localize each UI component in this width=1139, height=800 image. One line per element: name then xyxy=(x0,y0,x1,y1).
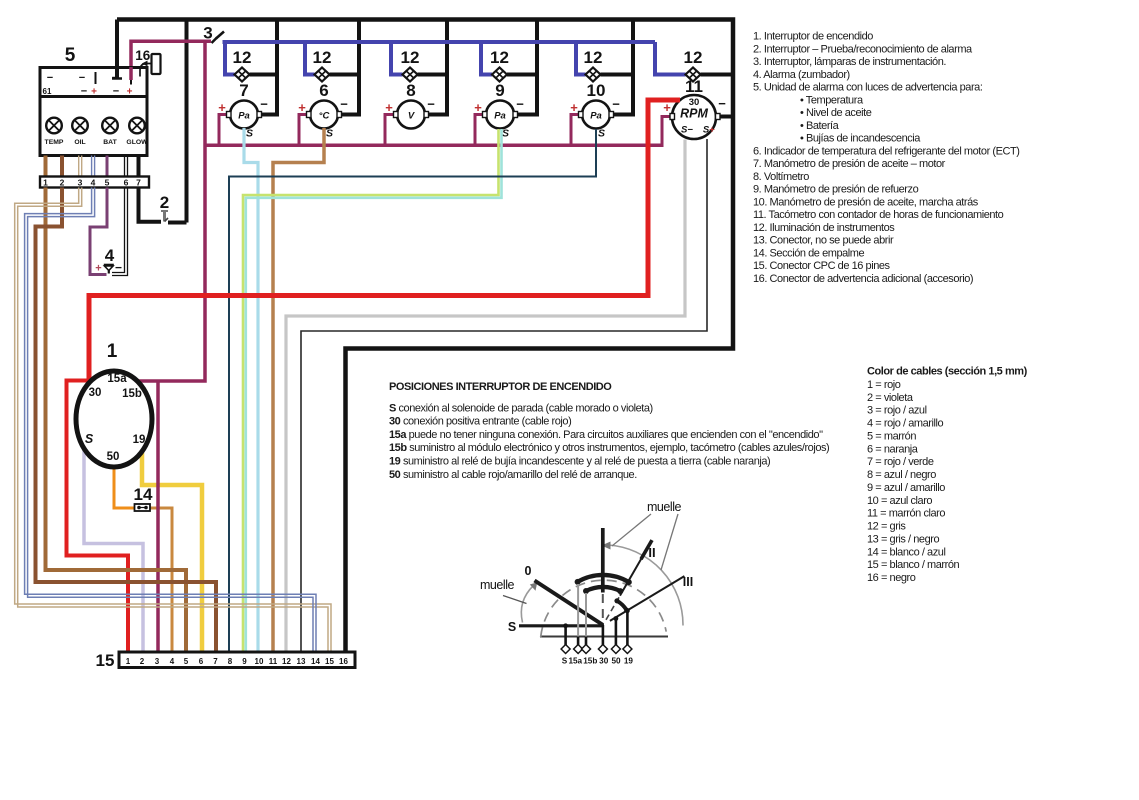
svg-text:+: + xyxy=(709,125,715,136)
wire: black from lamp 12 to column, gauge 8 xyxy=(418,73,448,77)
svg-text:• Nivel de aceite: • Nivel de aceite xyxy=(800,107,872,119)
ignition diagram: terminal 30 lead xyxy=(602,625,605,645)
svg-text:30: 30 xyxy=(89,387,102,399)
svg-text:+: + xyxy=(298,100,306,115)
wire: violet positive stub of tachometer 11 xyxy=(662,117,672,148)
wire: lavender from ignition S terminal to connector 15 pin 2 xyxy=(84,449,143,652)
gauge 10 xyxy=(570,81,620,140)
svg-text:8: 8 xyxy=(406,81,415,100)
svg-text:−: − xyxy=(340,97,348,112)
svg-text:5: 5 xyxy=(184,657,189,666)
svg-text:2: 2 xyxy=(140,657,145,666)
svg-text:19: 19 xyxy=(133,434,146,446)
lamp 12 above gauge 8 xyxy=(401,48,420,82)
wire: white/brown pin3 of unit 5 to connector 15 pin 15 xyxy=(15,188,331,653)
svg-text:12: 12 xyxy=(401,48,420,67)
wire: black from lamp 12 to column, gauge 9 xyxy=(507,73,537,77)
svg-text:15. Conector CPC de 16 pines: 15. Conector CPC de 16 pines xyxy=(753,260,891,272)
svg-text:12 = gris: 12 = gris xyxy=(867,521,906,533)
svg-text:°C: °C xyxy=(319,111,330,122)
alarm buzzer 4 xyxy=(95,246,122,275)
svg-text:7: 7 xyxy=(213,657,218,666)
wire: black from lamp 12 to column, gauge 6 xyxy=(330,73,360,77)
wire: black from lamp 12 of tachometer to right column xyxy=(701,73,734,77)
wire: orange from ignition terminal 50 to splice 14 xyxy=(114,466,135,508)
wire: violet unit5 pin 5 lead xyxy=(106,156,109,177)
wire: black negative lead of gauge 6 xyxy=(338,113,359,117)
wire: dark blue sender of gauge 10 to connector 15 pin 8 xyxy=(229,129,596,652)
svg-text:Pa: Pa xyxy=(494,111,506,122)
wire: white/brown unit5 pin 3 lead xyxy=(78,156,80,177)
svg-text:14 = blanco / azul: 14 = blanco / azul xyxy=(867,546,945,558)
svg-text:4. Alarma (zumbador): 4. Alarma (zumbador) xyxy=(753,69,850,81)
wire: blue illumination feed to lamp 12 of gauge 6 xyxy=(305,42,315,75)
svg-text:16 = negro: 16 = negro xyxy=(867,572,916,584)
wire: violet positive stub to gauge 10 xyxy=(571,115,581,148)
connector 16 (additional warning connector, accessory) xyxy=(135,48,160,77)
svg-text:7: 7 xyxy=(239,81,248,100)
svg-text:S conexión al solenoide de par: S conexión al solenoide de parada (cable… xyxy=(389,402,653,414)
svg-text:14. Sección de empalme: 14. Sección de empalme xyxy=(753,247,865,259)
svg-text:10. Manómetro de presión de ac: 10. Manómetro de presión de aceite, marc… xyxy=(753,196,979,208)
svg-text:12: 12 xyxy=(684,48,703,67)
wire: brown pin1 of unit 5 to connector 15 pin 5 xyxy=(46,188,187,653)
svg-text:+: + xyxy=(95,263,101,275)
svg-text:• Temperatura: • Temperatura xyxy=(800,94,864,106)
svg-text:muelle: muelle xyxy=(647,500,682,514)
wire: white/blue pin4 of unit 5 to connector 15 pin 14 xyxy=(25,188,316,653)
svg-text:15a: 15a xyxy=(107,373,127,385)
wire: orange/brown from splice 14 to connector 15 pin 4 xyxy=(150,508,172,652)
wire: light brown sender of gauge 6 to connector 15 pin 11 xyxy=(273,128,324,652)
connector 15 (16-pin CPC connector) xyxy=(96,651,355,670)
lamp 12 above gauge 7 xyxy=(233,48,252,82)
wire: light blue sender of gauge 7 to connector 15 pin 10 xyxy=(244,128,258,652)
svg-text:19: 19 xyxy=(624,657,634,666)
svg-text:2: 2 xyxy=(60,178,65,188)
wire: black negative lead of gauge 7 xyxy=(258,113,277,117)
svg-text:1. Interruptor de encendido: 1. Interruptor de encendido xyxy=(753,31,873,43)
svg-text:−: − xyxy=(612,97,620,112)
svg-text:1: 1 xyxy=(43,178,48,188)
ignition diagram: position 0 lever xyxy=(535,581,604,626)
svg-text:S: S xyxy=(85,432,94,446)
lamp 12 above gauge 10 xyxy=(584,48,603,82)
svg-text:1 = rojo: 1 = rojo xyxy=(867,379,901,391)
svg-text:S−: S− xyxy=(681,125,693,136)
wire: violet branch from 15b junction down to connector 15 pin 3 xyxy=(156,381,160,652)
lamp 12 above gauge 6 xyxy=(313,48,332,82)
wire: black negative lead of tachometer 11 xyxy=(716,115,733,119)
svg-text:+: + xyxy=(218,100,226,115)
svg-text:III: III xyxy=(683,575,693,589)
svg-text:II: II xyxy=(648,545,655,560)
svg-text:14: 14 xyxy=(134,485,153,504)
wire: black from pin 7 to test switch 2 xyxy=(139,188,162,222)
wire: blue illumination feed to lamp 12 of gauge 9 xyxy=(481,42,492,75)
wire: black from switch 2 up to main bus xyxy=(168,221,187,225)
wire: black unit5 pin 7 lead xyxy=(137,156,141,177)
gauge 6 xyxy=(298,81,348,140)
svg-text:5. Unidad de alarma con luces: 5. Unidad de alarma con luces de adverte… xyxy=(753,82,983,94)
svg-text:−: − xyxy=(427,97,435,112)
wire: violet positive bus linking gauges xyxy=(205,144,662,148)
ignition diagram: contact arc 50-19 small heavy arc xyxy=(617,601,627,610)
cable color legend xyxy=(867,366,1028,585)
switch 3 (instrument lamp switch) xyxy=(203,24,224,44)
wire: violet positive stub to gauge 8 xyxy=(385,115,396,148)
svg-text:• Bujías de incandescencia: • Bujías de incandescencia xyxy=(800,133,921,145)
svg-text:15: 15 xyxy=(325,657,334,666)
wire: violet positive stub to gauge 7 xyxy=(219,115,229,148)
ignition diagram: terminal 15a lead xyxy=(577,637,580,646)
svg-text:30: 30 xyxy=(599,657,609,666)
splice 14 (splice section) xyxy=(134,485,153,511)
wire: black negative lead of gauge 9 xyxy=(514,113,537,117)
wire: green line of gauge 9 sender pair to connector 15 pin 9 xyxy=(243,129,499,652)
wire: blue illumination feed to lamp 12 of gauge 8 xyxy=(391,42,403,75)
svg-text:S: S xyxy=(562,657,568,666)
gauge 7 xyxy=(218,81,268,140)
svg-text:2. Interruptor – Prueba/recono: 2. Interruptor – Prueba/reconocimiento d… xyxy=(753,43,973,55)
svg-text:V: V xyxy=(408,111,415,122)
svg-text:12: 12 xyxy=(584,48,603,67)
svg-text:−: − xyxy=(516,97,524,112)
ignition diagram: position I line solid and dashed to centre xyxy=(601,528,605,593)
wire: black drop from bus, column of gauge 10 xyxy=(631,20,635,117)
ignition diagram: terminal 19 lead and contact dot xyxy=(626,611,629,645)
wire: violet from pin 5 to buzzer plus xyxy=(90,188,107,275)
wire: white unit5 pin 6 lead xyxy=(124,156,126,177)
svg-text:7. Manómetro de presión de ace: 7. Manómetro de presión de aceite – moto… xyxy=(753,158,946,170)
wire: red from ignition switch 30 down to connector 15 pin 1 xyxy=(67,381,129,653)
wire: black negative lead of gauge 10 xyxy=(610,113,633,117)
alarm unit 5 (warning light unit) xyxy=(40,45,148,156)
svg-text:9. Manómetro de presión de ref: 9. Manómetro de presión de refuerzo xyxy=(753,184,919,196)
svg-text:12. Iluminación de instrumento: 12. Iluminación de instrumentos xyxy=(753,222,895,234)
ignition diagram: contact arc 15b outer heavy arc xyxy=(578,575,629,582)
svg-text:2: 2 xyxy=(160,193,169,212)
wire: blue illumination bus after switch 3 xyxy=(223,40,656,44)
ignition diagram: dashed intermediate arc xyxy=(541,580,667,637)
svg-text:muelle: muelle xyxy=(480,578,515,592)
svg-text:−: − xyxy=(79,72,85,84)
svg-text:50 suministro al cable rojo/am: 50 suministro al cable rojo/amarillo del… xyxy=(389,469,637,481)
svg-text:6: 6 xyxy=(199,657,204,666)
svg-text:5 = marrón: 5 = marrón xyxy=(867,431,916,443)
wire: red battery positive to tachometer plus and ignition switch 30 xyxy=(89,100,680,382)
wire: violet supply from unit 5 to switch 3 xyxy=(131,41,211,80)
ignition diagram: position II line with tick xyxy=(606,596,620,620)
svg-text:11 = marrón claro: 11 = marrón claro xyxy=(867,508,945,520)
gauge 9 xyxy=(474,81,524,140)
svg-text:15 = blanco / marrón: 15 = blanco / marrón xyxy=(867,559,960,571)
wire: grey S-minus of tachometer 11 to connector 15 pin 12 xyxy=(286,140,685,653)
svg-text:4: 4 xyxy=(91,178,96,188)
wire: black drop from bus to test switch 2 xyxy=(185,20,189,223)
wire: violet positive stub to gauge 9 xyxy=(475,115,485,148)
svg-text:S: S xyxy=(598,128,605,140)
svg-text:Pa: Pa xyxy=(590,111,602,122)
gauge 8 xyxy=(385,81,435,129)
svg-text:10 = azul claro: 10 = azul claro xyxy=(867,495,932,507)
wire: blue illumination feed to lamp 12 of gauge 10 xyxy=(576,42,586,75)
svg-text:13: 13 xyxy=(297,657,306,666)
wire: white from pin 6 to buzzer minus xyxy=(112,188,125,273)
svg-text:10: 10 xyxy=(587,81,606,100)
ignition switch 1 xyxy=(76,341,152,467)
svg-text:2 = violeta: 2 = violeta xyxy=(867,392,914,404)
wire: black drop from bus, column of gauge 8 xyxy=(445,20,449,117)
lamp 12 above gauge 9 xyxy=(490,48,509,82)
svg-text:−: − xyxy=(113,86,119,98)
svg-text:BAT: BAT xyxy=(103,139,117,146)
svg-text:5: 5 xyxy=(65,45,76,66)
svg-text:15: 15 xyxy=(96,651,115,670)
svg-text:6: 6 xyxy=(319,81,328,100)
svg-text:15a puede no tener ninguna con: 15a puede no tener ninguna conexión. Par… xyxy=(389,429,823,441)
svg-text:6 = naranja: 6 = naranja xyxy=(867,443,919,455)
ignition diagram: terminal 50 lead and contact dot xyxy=(615,619,618,646)
svg-text:+: + xyxy=(91,87,97,98)
ignition diagram: position III line xyxy=(610,576,685,621)
svg-text:50: 50 xyxy=(107,451,120,463)
svg-text:16: 16 xyxy=(135,48,151,63)
svg-text:12: 12 xyxy=(282,657,291,666)
wire: blue illumination feed to lamp 12 of gauge 7 xyxy=(225,42,235,75)
svg-text:4: 4 xyxy=(170,657,175,666)
svg-text:−: − xyxy=(115,261,122,275)
svg-text:S: S xyxy=(502,128,509,140)
svg-text:3. Interruptor, lámparas de in: 3. Interruptor, lámparas de instrumentac… xyxy=(753,56,946,68)
ignition diagram: contact arc 15a inner heavy arc xyxy=(586,587,620,591)
svg-text:−: − xyxy=(718,96,726,111)
wire: black negative lead of gauge 8 xyxy=(425,113,447,117)
ignition diagram: bottom base line xyxy=(540,636,668,638)
svg-text:15b suministro al módulo elect: 15b suministro al módulo electrónico y o… xyxy=(389,442,829,454)
svg-text:16. Conector de advertencia ad: 16. Conector de advertencia adicional (a… xyxy=(753,273,973,285)
wire: black drop from bus, column of gauge 7 xyxy=(275,20,279,117)
wire: black from lamp 12 to column, gauge 7 xyxy=(250,73,278,77)
svg-text:9 = azul / amarillo: 9 = azul / amarillo xyxy=(867,482,945,494)
svg-text:+: + xyxy=(385,100,393,115)
svg-text:15a: 15a xyxy=(568,657,582,666)
wire: brown unit5 pin 1 lead xyxy=(44,156,48,177)
svg-text:+: + xyxy=(570,100,578,115)
svg-text:1: 1 xyxy=(107,341,118,362)
svg-text:RPM: RPM xyxy=(680,107,708,121)
svg-text:POSICIONES INTERRUPTOR DE ENCE: POSICIONES INTERRUPTOR DE ENCENDIDO xyxy=(389,381,612,393)
svg-text:−: − xyxy=(260,97,268,112)
svg-text:50: 50 xyxy=(611,657,621,666)
wire: grey/black S-plus of tachometer 11 to connector 15 pin 13 xyxy=(301,139,707,652)
svg-text:OIL: OIL xyxy=(74,139,85,146)
svg-text:3: 3 xyxy=(155,657,160,666)
svg-text:6. Indicador de temperatura de: 6. Indicador de temperatura del refriger… xyxy=(753,145,1019,157)
tachometer gauge 11 with hour counter xyxy=(663,77,726,139)
svg-text:8: 8 xyxy=(228,657,233,666)
svg-text:3 = rojo / azul: 3 = rojo / azul xyxy=(867,405,927,417)
svg-text:TEMP: TEMP xyxy=(45,139,64,146)
svg-text:14: 14 xyxy=(311,657,320,666)
svg-text:13. Conector, no se puede abri: 13. Conector, no se puede abrir xyxy=(753,235,894,247)
connector 13 (non-openable connector, pins 1-7) xyxy=(40,177,149,188)
svg-text:• Batería: • Batería xyxy=(800,120,840,132)
svg-text:S: S xyxy=(326,128,333,140)
wire: main black bus from unit 5 across top, down right side to connector 15 pin 16 xyxy=(117,20,733,653)
ignition diagram: left spring return arc with arrow at position 0 xyxy=(521,586,533,623)
ignition diagram: right spring travel arc with arrow at position I xyxy=(608,545,683,626)
svg-text:13 = gris / negro: 13 = gris / negro xyxy=(867,533,939,545)
wire: blue illumination feed to lamp 12 of tachometer 11 xyxy=(655,42,686,75)
wire: black from lamp 12 to column, gauge 10 xyxy=(601,73,634,77)
svg-text:12: 12 xyxy=(490,48,509,67)
svg-text:1: 1 xyxy=(126,657,131,666)
svg-text:11. Tacómetro con contador de: 11. Tacómetro con contador de horas de f… xyxy=(753,209,1004,221)
svg-text:Color de cables (sección 1,5 m: Color de cables (sección 1,5 mm) xyxy=(867,366,1028,378)
ignition diagram: terminal 15b lead xyxy=(585,637,588,646)
svg-text:12: 12 xyxy=(313,48,332,67)
svg-text:3: 3 xyxy=(78,178,83,188)
wire: violet positive stub to gauge 6 xyxy=(299,115,309,148)
svg-text:S: S xyxy=(508,620,516,634)
wire: dark brown unit5 pin 2 lead xyxy=(60,156,64,177)
ignition diagram: terminal diamonds and labels xyxy=(561,645,633,666)
svg-text:7: 7 xyxy=(136,178,141,188)
svg-text:15b: 15b xyxy=(583,657,597,666)
svg-text:10: 10 xyxy=(255,657,264,666)
wire: yellow from ignition terminal 19 to connector 15 pin 6 xyxy=(142,451,202,652)
svg-text:16: 16 xyxy=(339,657,348,666)
switch 2 (alarm test/acknowledge switch) xyxy=(160,193,169,222)
svg-text:5: 5 xyxy=(105,178,110,188)
svg-text:7 = rojo / verde: 7 = rojo / verde xyxy=(867,456,934,468)
svg-text:−: − xyxy=(47,72,53,84)
svg-text:12: 12 xyxy=(233,48,252,67)
svg-text:15b: 15b xyxy=(122,388,142,400)
ignition diagram: S position line xyxy=(519,624,604,627)
svg-text:9: 9 xyxy=(242,657,247,666)
svg-text:61: 61 xyxy=(43,87,52,96)
svg-text:S: S xyxy=(246,128,253,140)
svg-text:4: 4 xyxy=(105,246,115,265)
svg-text:0: 0 xyxy=(525,564,532,578)
wire: black drop from bus into alarm unit 5 xyxy=(115,20,119,79)
wire: cyan line of gauge 9 sender pair to connector 15 pin 9 xyxy=(246,129,502,652)
wire: white/blue unit5 pin 4 lead xyxy=(91,156,93,177)
svg-text:30 conexión positiva entrante: 30 conexión positiva entrante (cable roj… xyxy=(389,416,571,428)
wire: violet from switch 3 down to ignition terminal 15b xyxy=(137,41,206,381)
wire: dark brown pin2 of unit 5 to connector 15 pin 7 xyxy=(36,188,217,653)
wire: black drop from bus, column of gauge 6 xyxy=(357,20,361,117)
svg-text:9: 9 xyxy=(495,81,504,100)
svg-text:4 = rojo / amarillo: 4 = rojo / amarillo xyxy=(867,418,943,430)
svg-text:11: 11 xyxy=(685,77,703,96)
svg-text:6: 6 xyxy=(124,178,129,188)
svg-text:Pa: Pa xyxy=(238,111,250,122)
lamp 12 above tachometer 11 xyxy=(684,48,703,82)
wire: black drop from bus, column of gauge 9 xyxy=(535,20,539,117)
ignition diagram: terminal S lead and junction dot xyxy=(564,626,567,645)
svg-text:19 suministro al relé de bujía: 19 suministro al relé de bujía incandesc… xyxy=(389,456,770,468)
legend list items 1-16 xyxy=(753,31,1019,285)
svg-text:+: + xyxy=(127,87,133,98)
svg-text:GLOW: GLOW xyxy=(126,139,148,146)
svg-text:+: + xyxy=(474,100,482,115)
svg-text:8 = azul / negro: 8 = azul / negro xyxy=(867,469,936,481)
svg-text:11: 11 xyxy=(269,657,278,666)
svg-text:8. Voltímetro: 8. Voltímetro xyxy=(753,171,809,183)
svg-text:−: − xyxy=(81,86,87,98)
ignition positions text block xyxy=(389,381,829,481)
